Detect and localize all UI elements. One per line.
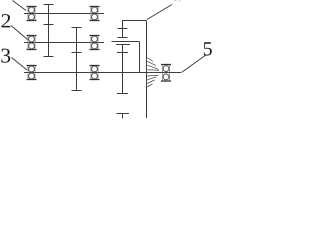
gear cap x122 y45 — [116, 44, 130, 46]
leader to shaft I (from top edge) — [13, 1, 27, 11]
bearing A1 — [27, 7, 37, 21]
bearing B1 — [27, 36, 37, 50]
gear cap x76 mesh — [72, 52, 82, 54]
bracket vertical x139 — [139, 42, 141, 73]
shaft III (output) — [24, 72, 181, 74]
lower gear line x122 — [122, 45, 124, 94]
bottom gear cap x122 y113.5 — [117, 113, 130, 115]
cropped label remnant top right — [175, 0, 181, 2]
clutch line on shaft II right — [112, 41, 140, 43]
gear cap x122 y28 — [118, 28, 128, 30]
leader from label 3 — [12, 58, 28, 71]
bearing B2 — [90, 36, 100, 50]
shaft I — [24, 13, 104, 15]
bottom gear stub x122 — [122, 114, 124, 119]
bearing D (output, outside frame) — [161, 65, 171, 82]
bearing C2 — [90, 66, 100, 80]
bearing C1 — [27, 66, 37, 80]
gear cap x48 top — [44, 4, 54, 6]
shaft II — [24, 42, 104, 44]
leader frame to top right (label cropped) — [147, 5, 172, 20]
gear cap x122 y93 — [117, 93, 128, 95]
gear cap x76 top — [72, 27, 82, 29]
label 5 — [204, 42, 212, 55]
frame top line — [122, 20, 147, 22]
label 3 — [1, 49, 10, 63]
gear cap x48 mesh — [44, 24, 54, 26]
bearing A2 — [90, 7, 100, 21]
gear cap x48 bottom — [44, 56, 54, 58]
leader from shaft III end to label 5 — [182, 55, 207, 73]
gear pair line x48 — [48, 5, 50, 57]
gear cap x122 y37 — [118, 37, 128, 39]
frame hatching below shaft — [147, 75, 158, 87]
gear pair line x76 — [76, 28, 78, 91]
gear cap x76 bottom — [72, 90, 82, 92]
frame wall x146 — [146, 21, 148, 119]
leader from label 2 — [11, 26, 28, 40]
frame hatching above shaft — [147, 58, 159, 71]
gear cap x122 y52 — [117, 52, 128, 54]
upper gear line x122 — [122, 21, 124, 38]
label 2 — [1, 14, 10, 27]
